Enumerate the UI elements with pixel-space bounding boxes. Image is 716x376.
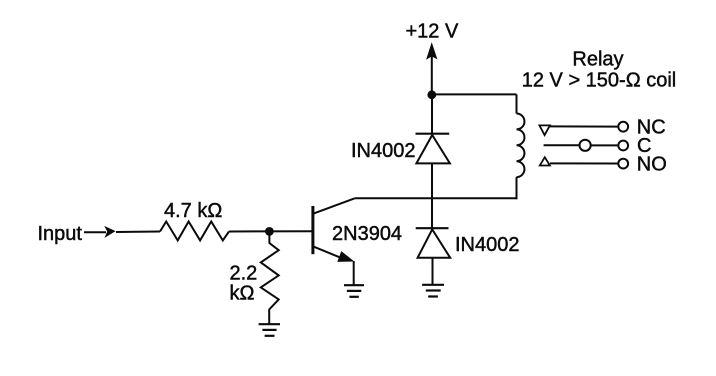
wire input lead bbox=[84, 231, 106, 233]
ground below R2 bbox=[259, 324, 280, 336]
svg-text:Input: Input bbox=[38, 223, 83, 245]
terminal C circle bbox=[618, 141, 628, 151]
wire emitter down bbox=[353, 261, 355, 285]
svg-text:4.7 kΩ: 4.7 kΩ bbox=[164, 200, 222, 222]
ground below emitter bbox=[344, 285, 364, 297]
svg-text:IN4002: IN4002 bbox=[455, 234, 520, 256]
Q1 collector lead bbox=[314, 198, 355, 213]
Q1 emitter lead bbox=[314, 247, 348, 261]
transistor Q1 2N3904 bbox=[313, 198, 355, 262]
Q1 emitter arrowhead bbox=[337, 251, 354, 262]
diode D1 IN4002 cathode bar bbox=[416, 133, 450, 135]
contact NO armature triangle bbox=[540, 157, 550, 165]
svg-text:kΩ: kΩ bbox=[230, 283, 255, 305]
wire supply to node bbox=[431, 56, 433, 95]
wire coil top vertical bbox=[516, 94, 518, 113]
wire upper diode branch bbox=[431, 95, 433, 135]
wire D2 to ground bbox=[432, 258, 434, 285]
terminal NO circle bbox=[618, 159, 628, 169]
svg-text:12 V > 150-Ω coil: 12 V > 150-Ω coil bbox=[522, 70, 676, 92]
svg-text:NO: NO bbox=[637, 153, 667, 175]
svg-text:IN4002: IN4002 bbox=[351, 140, 416, 162]
signal arrow into R1 bbox=[104, 226, 115, 238]
node base junction dot bbox=[265, 227, 274, 236]
wire NC contact bbox=[550, 125, 618, 127]
diode D2 IN4002 cathode bar bbox=[416, 227, 449, 229]
wire arrow to R1 bbox=[116, 231, 160, 234]
node supply junction dot bbox=[427, 90, 436, 99]
wire NO contact bbox=[550, 162, 618, 164]
wire C contact left bbox=[544, 144, 580, 146]
Q1 base bar bbox=[311, 206, 314, 254]
wire R1 to base node bbox=[229, 230, 312, 232]
resistor R2 2.2k zigzag bbox=[261, 233, 279, 324]
wire collector to coil bottom bbox=[355, 197, 517, 199]
terminal NC circle bbox=[618, 122, 628, 132]
relay coil L1 bbox=[517, 114, 525, 178]
svg-text:2N3904: 2N3904 bbox=[332, 223, 402, 245]
svg-text:+12 V: +12 V bbox=[406, 21, 459, 43]
wire node to coil top bbox=[432, 93, 517, 95]
wire D1 to collector node bbox=[431, 163, 433, 228]
pole C pivot circle bbox=[580, 140, 591, 151]
ground below D2 bbox=[422, 285, 444, 297]
wire C contact right bbox=[591, 144, 618, 146]
diode D2 IN4002 triangle bbox=[418, 229, 451, 257]
wire coil bottom vertical bbox=[516, 177, 518, 199]
diode D1 IN4002 triangle bbox=[416, 135, 450, 163]
svg-text:2.2: 2.2 bbox=[230, 263, 258, 285]
supply arrow up bbox=[426, 42, 437, 60]
resistor R1 4.7k zigzag bbox=[160, 222, 229, 241]
svg-text:Relay: Relay bbox=[572, 49, 623, 71]
contact NC armature triangle bbox=[539, 125, 550, 135]
